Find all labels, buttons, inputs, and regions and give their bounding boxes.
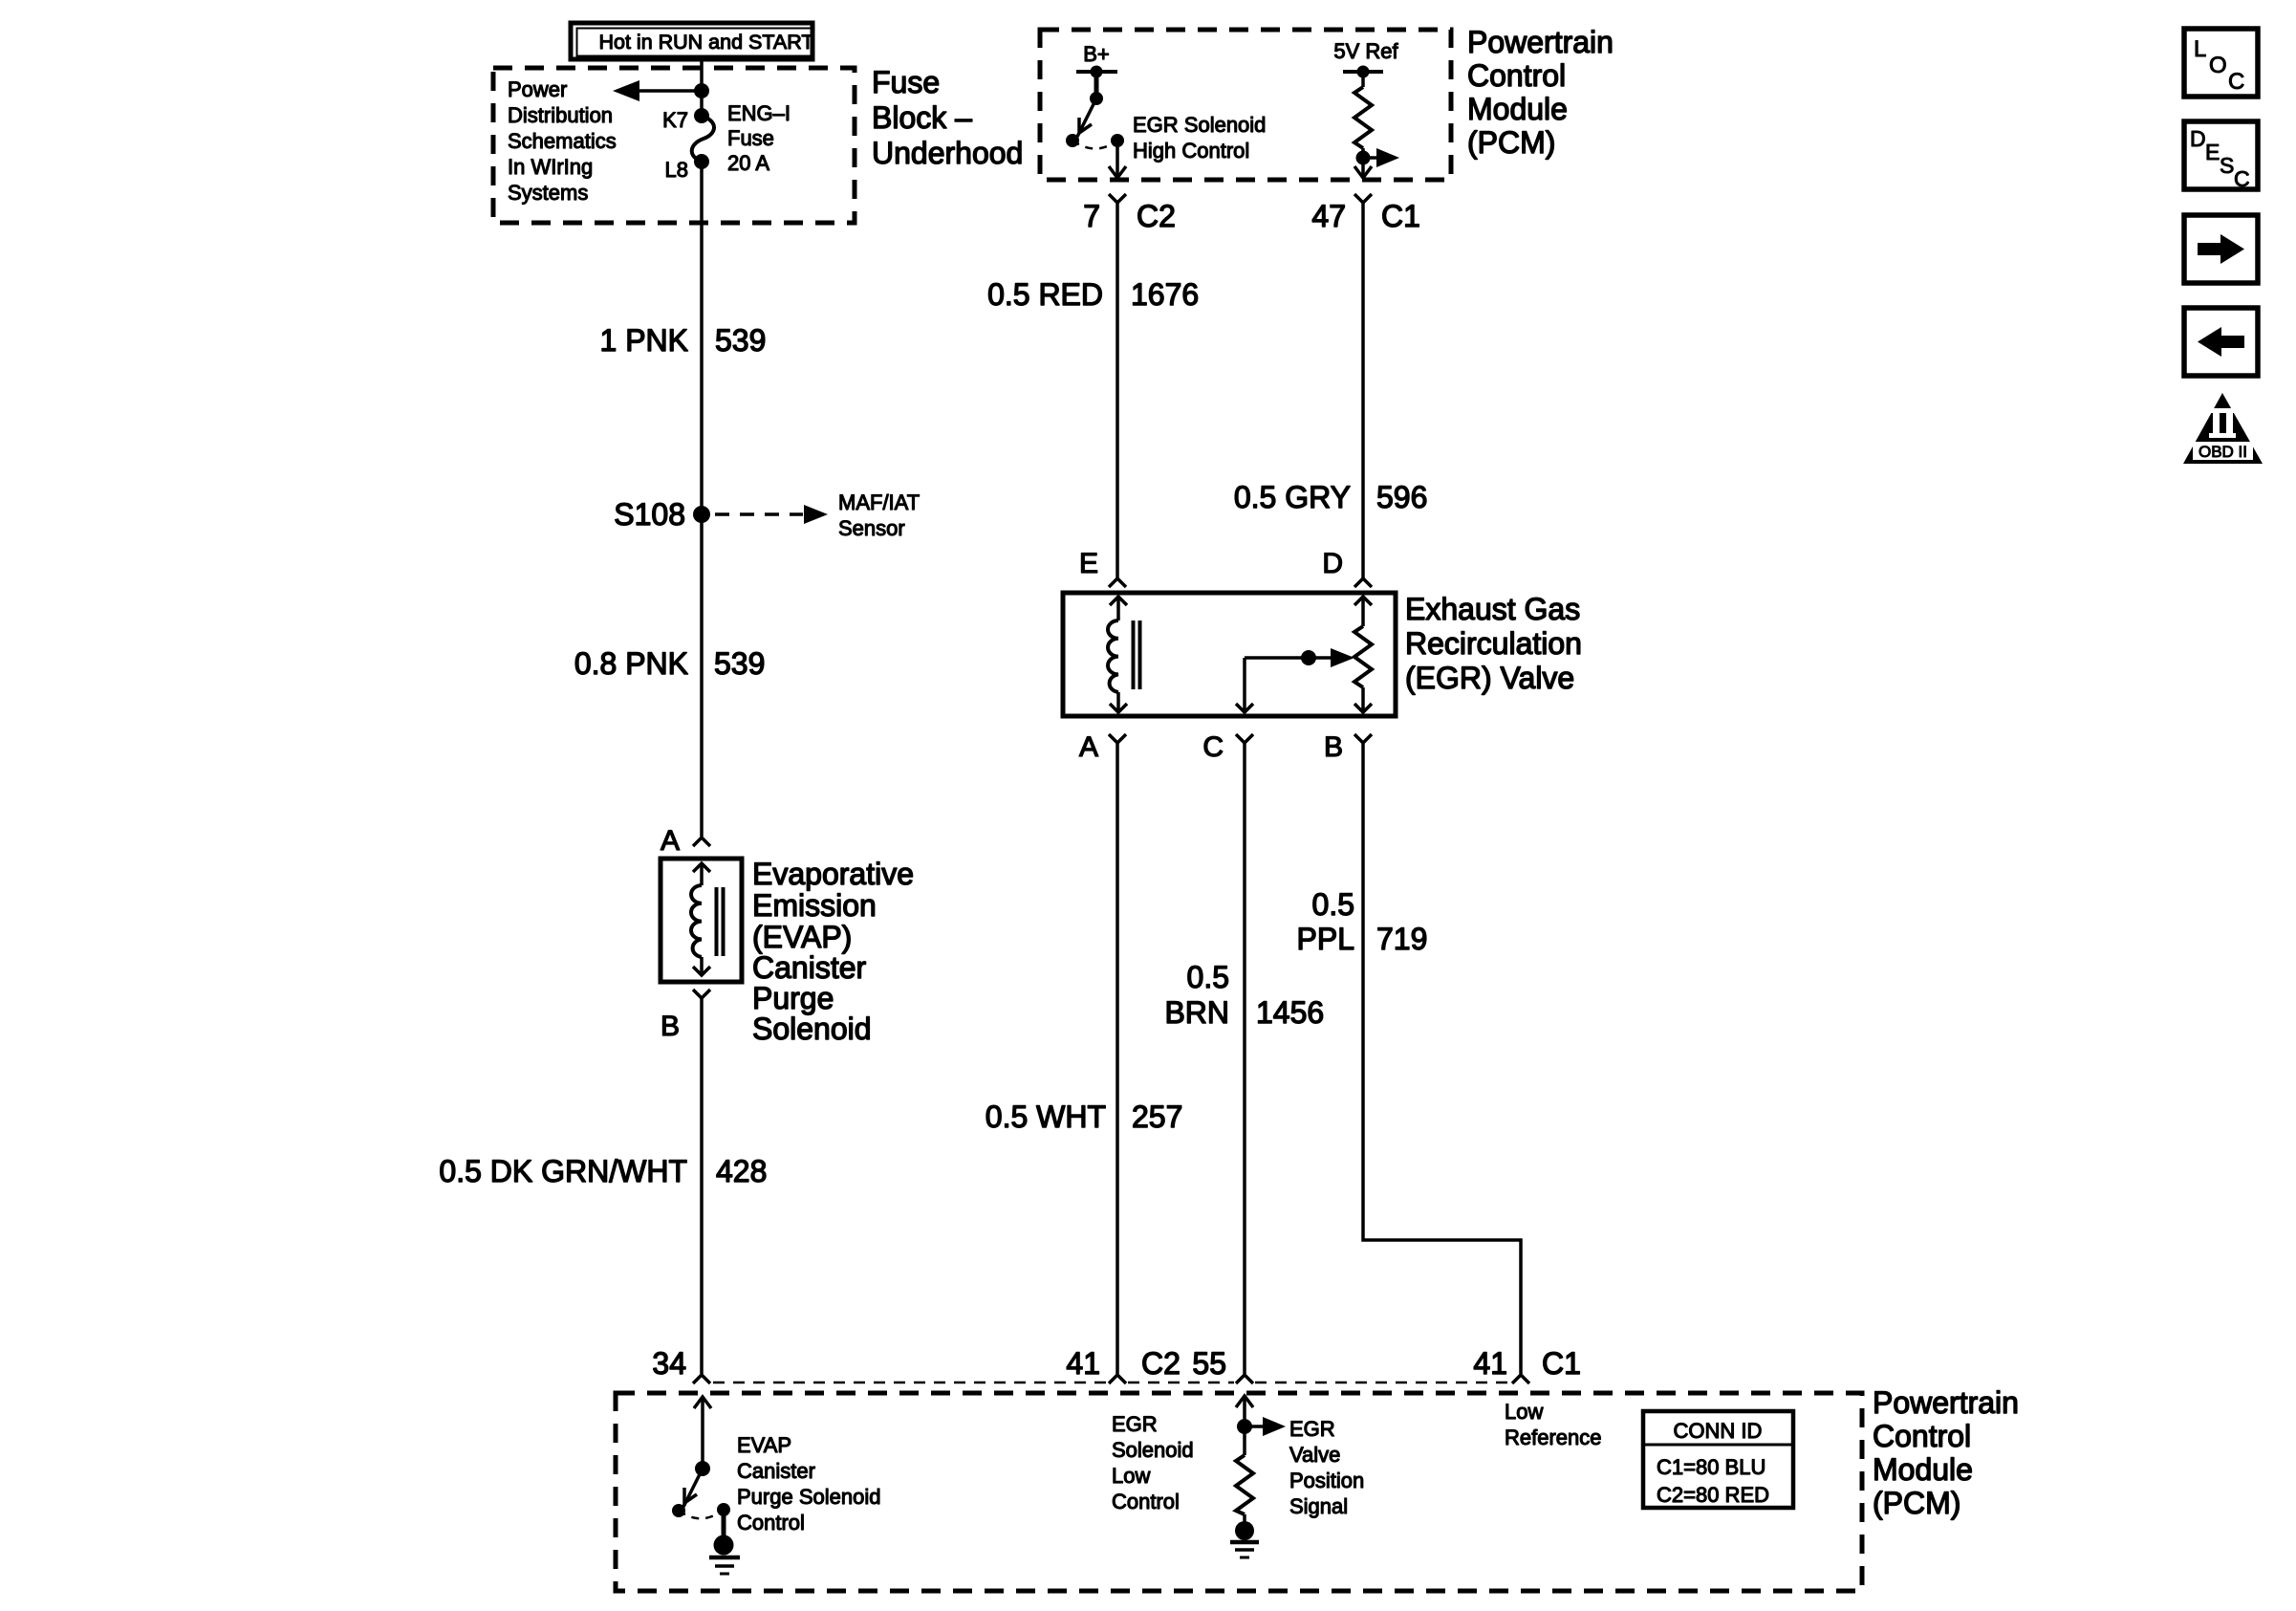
- label Powertrain Control Module (PCM) top: [1467, 25, 1614, 160]
- svg-text:Control: Control: [1873, 1419, 1971, 1453]
- svg-text:1676: 1676: [1131, 277, 1199, 312]
- pin 7 connector C2: [1083, 194, 1176, 233]
- powertrain control module (PCM) top dashed box: [1040, 30, 1451, 180]
- svg-text:Purge: Purge: [752, 981, 834, 1015]
- wire 1 PNK 539 from fuse L8 to S108: [700, 162, 704, 514]
- pin E connector into EGR valve: [1079, 548, 1126, 587]
- svg-text:1 PNK: 1 PNK: [600, 323, 688, 358]
- svg-text:Underhood: Underhood: [872, 136, 1023, 170]
- label box Hot in RUN and START: [571, 23, 814, 59]
- svg-text:0.5 DK GRN/WHT: 0.5 DK GRN/WHT: [439, 1154, 687, 1188]
- pin D connector into EGR valve: [1322, 548, 1372, 587]
- svg-text:1456: 1456: [1256, 995, 1324, 1030]
- B+ supply bar: [1076, 70, 1117, 74]
- wire from Hot in RUN box into fuse block: [700, 59, 704, 116]
- pull-down resistor on EGR position signal: [1236, 1426, 1253, 1514]
- wire 0.5 DK GRN/WHT 428 from EVAP pin B to PCM pin 34: [700, 998, 704, 1374]
- node K7: [694, 108, 709, 123]
- ground inside PCM for position signal resistor: [1230, 1514, 1259, 1557]
- svg-text:C: C: [2234, 166, 2250, 191]
- svg-text:Fuse: Fuse: [872, 65, 940, 99]
- svg-text:34: 34: [652, 1346, 686, 1381]
- svg-text:A: A: [661, 825, 680, 857]
- EGR pintle position potentiometer inside valve: [1354, 597, 1372, 712]
- fuse block underhood dashed box: [493, 68, 855, 223]
- svg-text:539: 539: [715, 323, 766, 358]
- node L8: [694, 154, 709, 169]
- svg-text:Hot in RUN and START: Hot in RUN and START: [598, 31, 813, 54]
- svg-text:Control: Control: [1112, 1490, 1180, 1513]
- icon LOC button: [2184, 29, 2258, 97]
- svg-text:0.5 RED: 0.5 RED: [987, 277, 1103, 312]
- label EGR Valve Position Signal: [1289, 1417, 1364, 1518]
- svg-text:A: A: [1079, 731, 1098, 763]
- label Power Distribution Schematics In Wiring Systems: [508, 77, 617, 205]
- svg-text:Signal: Signal: [1289, 1494, 1348, 1518]
- potentiometer wiper wire from pin C: [1236, 648, 1354, 712]
- svg-text:L: L: [2194, 36, 2206, 62]
- value label 0.5 BRN 1456: [1164, 960, 1324, 1030]
- svg-text:C1: C1: [1542, 1346, 1581, 1381]
- value label 0.5 GRY 596: [1234, 480, 1428, 514]
- svg-text:High Control: High Control: [1133, 139, 1249, 163]
- svg-text:EVAP: EVAP: [737, 1433, 791, 1457]
- pin 34 connector into PCM: [652, 1346, 710, 1383]
- svg-text:47: 47: [1311, 199, 1346, 233]
- svg-text:ENG–I: ENG–I: [727, 101, 791, 125]
- svg-text:Power: Power: [508, 77, 567, 101]
- svg-text:Position: Position: [1289, 1469, 1364, 1492]
- svg-text:S: S: [2220, 153, 2234, 178]
- svg-text:E: E: [2205, 140, 2220, 164]
- svg-text:PPL: PPL: [1297, 922, 1354, 956]
- svg-text:D: D: [2190, 126, 2206, 151]
- svg-text:B+: B+: [1083, 42, 1110, 66]
- svg-text:Module: Module: [1467, 92, 1568, 126]
- connector face thin dashed line: [713, 1382, 1510, 1384]
- svg-text:Fuse: Fuse: [727, 126, 774, 150]
- pin 55 connector into PCM: [1192, 1346, 1253, 1383]
- node on 5V Ref bar: [1357, 66, 1370, 78]
- label Exhaust Gas Recirculation (EGR) Valve: [1405, 592, 1582, 695]
- svg-text:C: C: [2228, 69, 2244, 95]
- svg-text:EGR: EGR: [1112, 1412, 1158, 1436]
- svg-text:Valve: Valve: [1289, 1443, 1340, 1467]
- svg-text:(EGR) Valve: (EGR) Valve: [1405, 661, 1574, 695]
- pin B connector below EVAP purge solenoid: [661, 990, 710, 1042]
- svg-text:L8: L8: [665, 158, 688, 182]
- svg-text:O: O: [2209, 53, 2227, 78]
- svg-text:E: E: [1079, 548, 1098, 579]
- svg-text:0.5: 0.5: [1187, 960, 1229, 994]
- svg-text:(PCM): (PCM): [1467, 125, 1555, 160]
- value label 0.5 RED 1676: [987, 277, 1199, 312]
- value label 0.5 DK GRN/WHT 428: [439, 1154, 767, 1188]
- wire 0.5 PPL 719 from EGR pin B to PCM pin 41 C1: [1363, 743, 1521, 1374]
- node below resistor: [1356, 151, 1371, 165]
- svg-text:Block –: Block –: [872, 100, 972, 135]
- svg-text:MAF/IAT: MAF/IAT: [838, 490, 920, 514]
- EGR solenoid high control driver switch: [1066, 72, 1124, 149]
- svg-text:CONN ID: CONN ID: [1674, 1419, 1763, 1443]
- label MAF/IAT Sensor: [838, 490, 920, 540]
- svg-text:7: 7: [1083, 199, 1100, 233]
- CONN ID table: [1643, 1411, 1793, 1508]
- svg-text:Exhaust Gas: Exhaust Gas: [1405, 592, 1580, 626]
- node S108 splice: [693, 506, 710, 523]
- svg-text:In WIrIng: In WIrIng: [508, 155, 593, 179]
- pin A connector into EVAP purge solenoid: [661, 825, 710, 857]
- pin B connector below EGR valve: [1324, 731, 1372, 763]
- svg-text:5V Ref: 5V Ref: [1333, 39, 1398, 63]
- icon back arrow button: [2184, 308, 2258, 376]
- svg-text:719: 719: [1376, 922, 1427, 956]
- svg-text:Low: Low: [1112, 1464, 1150, 1488]
- EGR valve position signal input with up arrow: [1236, 1396, 1286, 1436]
- dashed branch arrow to MAF/IAT sensor: [715, 505, 828, 524]
- pin 47 connector C1: [1311, 194, 1420, 233]
- svg-text:Powertrain: Powertrain: [1467, 25, 1614, 59]
- svg-text:C: C: [1202, 731, 1224, 763]
- svg-text:K7: K7: [662, 108, 688, 132]
- node junction to power distribution arrow: [694, 83, 709, 98]
- svg-text:C2: C2: [1141, 1346, 1180, 1381]
- wire 0.8 PNK 539 from S108 to EVAP solenoid pin A: [700, 514, 704, 837]
- svg-text:0.5 GRY: 0.5 GRY: [1234, 480, 1351, 514]
- wire from driver to pin 7 with down arrow: [1109, 141, 1126, 178]
- svg-text:BRN: BRN: [1164, 995, 1229, 1030]
- svg-text:C2: C2: [1137, 199, 1176, 233]
- fuse ENG-I 20A element: [692, 116, 714, 162]
- svg-text:Reference: Reference: [1505, 1426, 1602, 1449]
- svg-text:Sensor: Sensor: [838, 516, 905, 540]
- value label ENG-I Fuse 20 A: [727, 101, 791, 175]
- powertrain control module (PCM) bottom dashed box: [616, 1393, 1862, 1591]
- svg-text:B: B: [661, 1011, 680, 1042]
- svg-text:Schematics: Schematics: [508, 129, 617, 153]
- svg-text:Emission: Emission: [752, 888, 877, 923]
- label Powertrain Control Module (PCM) bottom: [1873, 1385, 2019, 1520]
- svg-text:596: 596: [1376, 480, 1427, 514]
- svg-text:C1: C1: [1381, 199, 1420, 233]
- label EVAP Canister Purge Solenoid Control: [737, 1433, 880, 1535]
- svg-text:Solenoid: Solenoid: [1112, 1438, 1194, 1462]
- svg-text:428: 428: [716, 1154, 767, 1188]
- evaporative emission EVAP canister purge solenoid box: [661, 859, 742, 982]
- svg-text:Canister: Canister: [737, 1459, 815, 1483]
- ground inside PCM for EVAP driver: [709, 1510, 740, 1574]
- wire 0.5 BRN 1456 from EGR pin C to PCM pin 55: [1243, 743, 1246, 1374]
- svg-text:Evaporative: Evaporative: [752, 857, 914, 891]
- pin 41 connector C2 into PCM: [1066, 1346, 1180, 1383]
- svg-text:S108: S108: [614, 497, 685, 532]
- svg-text:(PCM): (PCM): [1873, 1486, 1960, 1520]
- exhaust gas recirculation EGR valve box: [1063, 593, 1396, 716]
- pin C connector below EGR valve: [1202, 731, 1253, 763]
- svg-text:Module: Module: [1873, 1452, 1973, 1487]
- svg-text:539: 539: [714, 646, 765, 681]
- EVAP canister purge solenoid control driver in PCM: [672, 1397, 730, 1518]
- svg-text:EGR: EGR: [1289, 1417, 1335, 1441]
- svg-text:Solenoid: Solenoid: [752, 1012, 872, 1046]
- wire 0.5 RED 1676 from pin 7 to EGR valve pin E: [1116, 203, 1119, 578]
- pin 41 connector C1 into PCM: [1473, 1346, 1581, 1383]
- svg-text:257: 257: [1132, 1099, 1182, 1134]
- svg-text:B: B: [1324, 731, 1343, 763]
- svg-text:41: 41: [1473, 1346, 1507, 1381]
- value label 1 PNK 539: [600, 323, 767, 358]
- svg-text:C1=80 BLU: C1=80 BLU: [1657, 1455, 1765, 1479]
- svg-text:55: 55: [1192, 1346, 1226, 1381]
- EGR solenoid coil inside valve: [1108, 597, 1140, 712]
- value label 0.5 WHT 257: [986, 1099, 1183, 1134]
- wire 0.5 WHT 257 from EGR pin A to PCM pin 41 C2: [1116, 743, 1119, 1374]
- svg-text:0.8 PNK: 0.8 PNK: [574, 646, 688, 681]
- label EGR Solenoid Low Control: [1112, 1412, 1194, 1513]
- icon DESC button: [2184, 121, 2258, 191]
- svg-text:EGR Solenoid: EGR Solenoid: [1133, 113, 1266, 137]
- svg-text:Low: Low: [1505, 1400, 1543, 1424]
- svg-text:0.5: 0.5: [1312, 887, 1354, 922]
- svg-text:Distribution: Distribution: [508, 103, 613, 127]
- arrow branch EGR position feedback: [1363, 148, 1399, 167]
- svg-text:Canister: Canister: [752, 950, 867, 985]
- icon OBD II badge: [2183, 393, 2263, 464]
- svg-text:Systems: Systems: [508, 181, 588, 205]
- svg-text:Purge Solenoid: Purge Solenoid: [737, 1485, 880, 1509]
- svg-text:OBD II: OBD II: [2199, 443, 2247, 461]
- EVAP purge solenoid coil: [691, 863, 724, 975]
- icon forward arrow button: [2184, 215, 2258, 283]
- 5V Ref supply bar: [1343, 70, 1383, 74]
- svg-text:Control: Control: [737, 1511, 805, 1535]
- node on B+ bar: [1091, 66, 1103, 78]
- resistor pull-up in PCM: [1354, 72, 1372, 158]
- label Low Reference: [1505, 1400, 1602, 1449]
- value label 0.8 PNK 539: [574, 646, 766, 681]
- svg-text:Powertrain: Powertrain: [1873, 1385, 2019, 1420]
- wire from resistor to pin 47 with down arrow: [1354, 158, 1372, 178]
- wire arrow to power distribution schematics: [613, 80, 702, 101]
- svg-text:0.5 WHT: 0.5 WHT: [986, 1099, 1106, 1134]
- svg-text:41: 41: [1066, 1346, 1100, 1381]
- svg-text:Recirculation: Recirculation: [1405, 626, 1582, 661]
- value label 0.5 PPL 719: [1297, 887, 1428, 956]
- label Evaporative Emission (EVAP) Canister Purge Solenoid: [752, 857, 914, 1046]
- svg-text:20 A: 20 A: [727, 151, 769, 175]
- svg-text:(EVAP): (EVAP): [752, 920, 852, 954]
- svg-text:C2=80 RED: C2=80 RED: [1657, 1483, 1769, 1507]
- svg-text:D: D: [1322, 548, 1343, 579]
- wire 0.5 GRY 596 from pin 47 to EGR valve pin D: [1361, 203, 1365, 578]
- svg-text:Control: Control: [1467, 58, 1566, 93]
- pin A connector below EGR valve: [1079, 731, 1126, 763]
- label Fuse Block - Underhood: [872, 65, 1023, 170]
- label EGR Solenoid High Control: [1133, 113, 1266, 163]
